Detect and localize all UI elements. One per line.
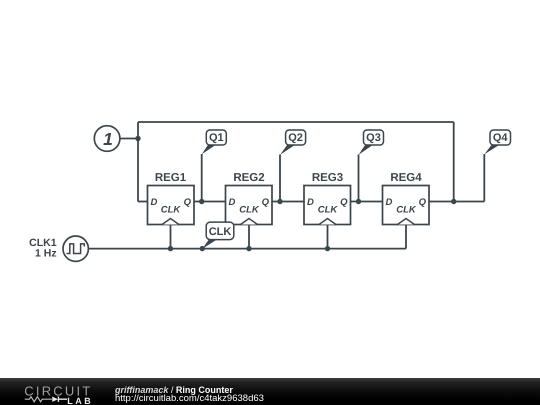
svg-text:Q: Q [262,197,270,208]
flip-flop REG4 [383,172,430,225]
svg-text:Q3: Q3 [366,132,381,144]
svg-text:CLK: CLK [161,205,182,216]
wire REG3 Q to REG4 D [351,201,383,203]
junction dot Q3 node [356,199,361,204]
junction dot clock bus REG1 [168,246,173,251]
junction dot at logic-1 tap [135,136,140,141]
node flag Q3 [359,130,384,155]
clock source CLK1 [29,236,88,261]
junction dot Q4 feedback node [451,199,456,204]
wire feedback right vertical [453,122,455,202]
wire Q1 flag riser [201,154,203,202]
flip-flop REG1 [148,172,195,225]
svg-text:CLK: CLK [318,205,339,216]
svg-text:REG3: REG3 [312,172,343,184]
wire clock stub REG1 [170,225,172,249]
junction dot Q1 node [199,199,204,204]
svg-text:D: D [229,197,236,208]
node flag Q1 [202,130,227,154]
wire REG1 Q to REG2 D [194,201,226,203]
node flag Q2 [280,130,306,155]
logic-1 source indicator [94,126,120,152]
svg-text:REG2: REG2 [233,172,264,184]
wire from logic-1 source [120,138,138,140]
svg-text:REG4: REG4 [390,172,422,184]
svg-text:REG1: REG1 [155,172,187,184]
svg-text:Q1: Q1 [209,132,224,144]
junction dot clock bus REG2 [246,246,251,251]
node flag Q4 [484,130,510,154]
footer bar [0,378,540,405]
svg-text:CLK: CLK [239,205,260,216]
svg-text:CLK: CLK [209,226,232,238]
svg-text:Q: Q [340,197,348,208]
wire Q4 flag riser [483,154,485,202]
svg-text:1 Hz: 1 Hz [35,248,57,260]
svg-text:D: D [151,197,158,208]
junction dot Q2 node [277,199,282,204]
node flag CLK [202,222,233,249]
wire REG2 Q to REG3 D [273,201,305,203]
wire clock stub REG3 [327,225,329,249]
wire into REG1 D [138,201,148,203]
svg-text:1: 1 [103,129,113,149]
svg-text:CLK: CLK [396,205,417,216]
wire clock bus right vertical to REG4 CLK [405,225,407,249]
wire Q3 flag riser [358,155,360,202]
svg-text:Q: Q [184,197,192,208]
wire clock stub REG2 [248,225,250,249]
svg-text:D: D [307,197,314,208]
svg-text:Q4: Q4 [493,132,509,144]
svg-text:LAB: LAB [67,396,93,405]
wire REG4 Q output [430,201,485,203]
wire feedback left vertical [137,122,139,202]
svg-text:Q: Q [419,197,427,208]
CircuitLab logo [0,378,110,405]
wire clock bus [88,248,406,250]
svg-text:D: D [386,197,393,208]
wire top feedback [138,121,454,123]
flip-flop REG3 [304,172,351,225]
junction dot clock bus REG3 [325,246,330,251]
svg-text:Q2: Q2 [288,132,303,144]
wire Q2 flag riser [279,155,281,202]
junction dot CLK flag anchor [200,246,205,251]
flip-flop REG2 [226,172,273,225]
